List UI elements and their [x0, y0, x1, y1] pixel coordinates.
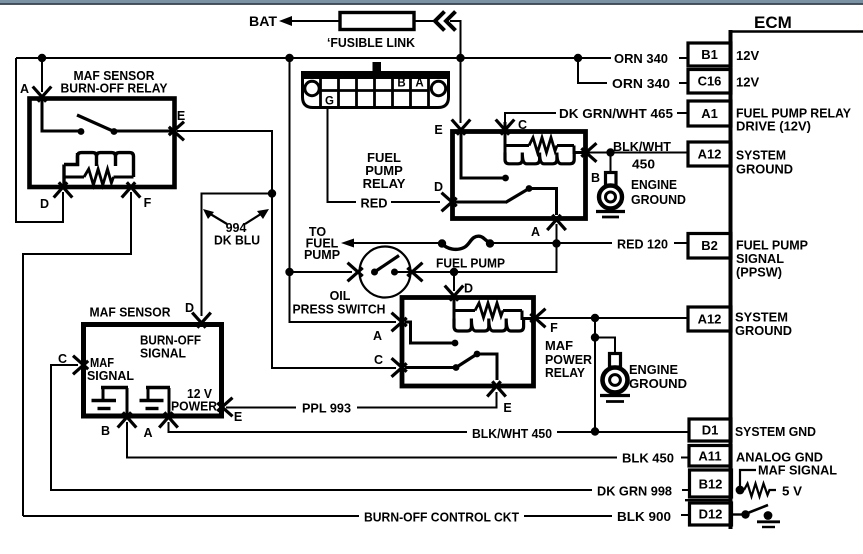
- svg-text:(PPSW): (PPSW): [736, 265, 782, 280]
- connector C100 grid verticals: [319, 78, 322, 107]
- svg-text:MAF: MAF: [545, 338, 573, 353]
- ECM terminal B1 box: [688, 43, 731, 66]
- coil K1 left lead: [62, 165, 65, 187]
- connector C100 row divider: [321, 89, 429, 92]
- S1 right contact: [391, 269, 398, 276]
- pin A arrow K3: [392, 313, 407, 327]
- svg-text:GROUND: GROUND: [735, 323, 792, 338]
- svg-text:B12: B12: [699, 477, 723, 492]
- svg-text:BURN-OFF CONTROL CKT: BURN-OFF CONTROL CKT: [364, 511, 519, 525]
- pin arrow BLK/WHT at K2 right: [581, 143, 596, 157]
- svg-text:MAF SIGNAL: MAF SIGNAL: [758, 463, 837, 478]
- inline fuse left terminal: [438, 239, 446, 247]
- pin D arrow K2: [442, 193, 457, 207]
- wire BLK/WHT 450 to ECM A12: [588, 152, 688, 154]
- svg-text:B1: B1: [701, 47, 718, 62]
- pin arrow into S1 left: [348, 263, 363, 277]
- engine ground G1 symbol: [606, 173, 617, 186]
- wire K1 pin F to left loop down: [23, 192, 131, 516]
- svg-text:B: B: [101, 424, 110, 438]
- svg-text:A: A: [373, 329, 382, 343]
- junction pump feed: [552, 239, 560, 247]
- svg-text:C16: C16: [698, 74, 722, 89]
- wire main 12V rail: [16, 57, 611, 59]
- wire fuse to junction: [490, 242, 557, 244]
- wire chevron to corner, down to fuel pump relay E: [450, 21, 461, 123]
- svg-text:A: A: [20, 82, 29, 96]
- pin E arrow K2: [452, 120, 466, 135]
- wire to engine ground G1: [610, 153, 612, 174]
- switch K2: E lead to contact: [461, 133, 503, 178]
- wire U1 pin A to BLK/WHT 450 (D1): [169, 422, 468, 432]
- junction at connector drop: [285, 54, 293, 62]
- junction engine ground G2 branch: [591, 333, 599, 341]
- wire rail drop to relay pin A: [41, 58, 43, 92]
- wire S1 to junction: [395, 271, 455, 273]
- svg-text:F: F: [144, 196, 152, 210]
- svg-text:C: C: [518, 118, 527, 132]
- svg-text:BAT: BAT: [249, 14, 278, 29]
- coil K2: C lead down: [504, 122, 507, 146]
- ECM top boundary: [729, 30, 863, 33]
- svg-text:DK GRN 998: DK GRN 998: [597, 484, 672, 499]
- wire fusible link to chevron: [414, 20, 437, 22]
- S1 left contact: [371, 269, 378, 276]
- inline fuse right terminal: [486, 239, 494, 247]
- ECM terminal C16 box: [688, 70, 731, 94]
- arrow to fuel pump: [341, 239, 354, 248]
- svg-text:GROUND: GROUND: [629, 376, 687, 391]
- fusible link F1: [340, 13, 414, 30]
- svg-text:BLK 900: BLK 900: [617, 509, 671, 524]
- svg-text:A: A: [531, 225, 540, 239]
- junction ground bus at D1 wire: [591, 427, 599, 435]
- wire PPL 993 from U1 E to K3 E: [226, 407, 296, 409]
- svg-text:PRESS SWITCH: PRESS SWITCH: [293, 303, 386, 317]
- svg-text:ORN 340: ORN 340: [612, 76, 670, 91]
- junction at left rail: [38, 54, 46, 62]
- switch K1 left contact: [78, 128, 85, 135]
- switch K3: A lead: [405, 322, 452, 343]
- pin D arrow U1: [192, 313, 206, 328]
- pin B arrow U1: [118, 412, 132, 427]
- wire K1 pin E to MAF power relay C: [177, 131, 396, 368]
- svg-text:BLK/WHT: BLK/WHT: [613, 139, 671, 154]
- wire switch K3 to pin E: [477, 354, 497, 380]
- switch K3: C lead: [405, 366, 456, 369]
- wire stub D12 switch: [733, 513, 742, 515]
- svg-text:ORN 340: ORN 340: [614, 51, 668, 66]
- junction at BAT feed: [456, 54, 464, 62]
- ECM terminal D1 box: [689, 419, 731, 441]
- svg-text:GROUND: GROUND: [631, 192, 686, 207]
- svg-text:D12: D12: [699, 507, 723, 522]
- pin F arrow K1: [122, 182, 136, 197]
- wire F to ECM A12 second: [537, 317, 688, 319]
- svg-text:E: E: [503, 401, 511, 415]
- oil press switch S1 circle: [360, 247, 411, 298]
- svg-text:POWER: POWER: [171, 400, 217, 414]
- svg-text:BLK/WHT 450: BLK/WHT 450: [472, 426, 552, 441]
- svg-text:SIGNAL: SIGNAL: [87, 369, 134, 383]
- svg-text:DK GRN/WHT 465: DK GRN/WHT 465: [559, 106, 673, 121]
- svg-text:A1: A1: [701, 106, 718, 121]
- pin C arrow U1: [73, 356, 88, 370]
- svg-text:ECM: ECM: [754, 13, 792, 32]
- coil K2 resistor and winding: [505, 144, 529, 147]
- coil K3 resistor and winding: [454, 309, 475, 312]
- junction 994 DK BLU branch: [268, 189, 276, 197]
- junction oil press switch branch: [285, 268, 293, 276]
- pin C arrow K2: [496, 120, 510, 135]
- connector C100 right screw hole: [431, 81, 445, 95]
- svg-text:A: A: [143, 426, 152, 440]
- pin E arrow K1: [169, 122, 184, 136]
- svg-text:RELAY: RELAY: [545, 365, 585, 380]
- switch K3 blade: [456, 354, 477, 368]
- pin A arrow U1: [159, 412, 173, 427]
- junction 5V node: [736, 486, 745, 495]
- svg-text:E: E: [177, 109, 185, 123]
- wire ground bus down: [594, 318, 596, 431]
- svg-text:PUMP: PUMP: [304, 248, 340, 262]
- junction at ORN 340 branch: [574, 54, 582, 62]
- wire C to DK GRN 998: [51, 365, 592, 490]
- junction system ground bus top: [591, 314, 599, 322]
- switch at D12 blade: [747, 505, 769, 514]
- wire stub ORN 340 C16: [679, 82, 688, 84]
- svg-text:D: D: [464, 282, 473, 296]
- wire K1 pin A to switch contact: [42, 99, 79, 131]
- wire K2 pin A down to oil press switch row: [454, 224, 557, 272]
- svg-text:D: D: [434, 180, 443, 194]
- svg-text:ENGINE: ENGINE: [629, 362, 678, 377]
- switch K2 blade: [506, 189, 530, 203]
- svg-text:C: C: [58, 352, 67, 366]
- ECM terminal D12 box: [690, 503, 732, 525]
- inline fuse curve: [442, 236, 490, 249]
- svg-text:SYSTEM: SYSTEM: [736, 148, 786, 163]
- connector C100 body: [303, 73, 449, 108]
- ground at D12: [757, 520, 780, 523]
- svg-text:MAF: MAF: [90, 356, 114, 370]
- svg-text:450: 450: [632, 157, 655, 172]
- wire branch to MAF sensor D: [202, 194, 273, 317]
- svg-text:BLK 450: BLK 450: [622, 451, 674, 466]
- resistor 5V pull-up: [744, 484, 776, 497]
- svg-text:RED: RED: [361, 197, 388, 211]
- wire to engine ground G2: [595, 338, 615, 355]
- ground symbol U1 pin B: [126, 388, 129, 415]
- svg-text:PPL 993: PPL 993: [302, 401, 351, 416]
- svg-text:12V: 12V: [736, 48, 759, 63]
- wire pin G to RED wire: [328, 108, 357, 202]
- svg-text:OIL: OIL: [330, 289, 351, 303]
- pin E arrow K3: [487, 381, 501, 396]
- pin C arrow K3: [392, 358, 407, 372]
- wire RED to fuel pump relay D: [391, 201, 440, 203]
- svg-text:5 V: 5 V: [782, 484, 802, 499]
- ECM terminal A12 box: [688, 142, 731, 166]
- wire DK GRN/WHT 465 from pin C to ECM A1: [505, 113, 556, 122]
- ECM left boundary: [729, 30, 733, 529]
- svg-text:E: E: [434, 123, 442, 137]
- wire BURN-OFF CONTROL CKT: [23, 515, 359, 517]
- arrow to BAT: [279, 16, 292, 26]
- svg-text:GROUND: GROUND: [736, 162, 793, 177]
- pin arrow into S1 right: [407, 263, 422, 277]
- svg-text:SIGNAL: SIGNAL: [140, 347, 186, 361]
- svg-text:FUEL PUMP: FUEL PUMP: [436, 257, 505, 271]
- coil K3: D lead down: [453, 296, 456, 311]
- ECM terminal A1 box: [688, 101, 731, 126]
- svg-text:B: B: [397, 78, 405, 90]
- svg-text:RED 120: RED 120: [617, 237, 668, 252]
- svg-text:D: D: [185, 301, 194, 315]
- svg-text:SYSTEM GND: SYSTEM GND: [735, 424, 816, 439]
- switch at D12 contact: [741, 510, 749, 518]
- svg-text:A12: A12: [698, 147, 722, 162]
- svg-text:B: B: [591, 171, 600, 185]
- resistor inside coil K1: [64, 176, 84, 179]
- switch at D12 fixed contact: [764, 511, 773, 520]
- wire left rail to relay pin D: [16, 58, 63, 222]
- svg-text:A11: A11: [698, 449, 721, 464]
- svg-text:‘FUSIBLE LINK: ‘FUSIBLE LINK: [327, 36, 415, 50]
- svg-text:MAF SENSOR: MAF SENSOR: [90, 305, 172, 320]
- wire stub ORN 340 B1: [679, 57, 688, 59]
- arrow to 994 wire left: [207, 212, 227, 224]
- wire junction down to K3 pin D: [453, 272, 455, 291]
- svg-text:RELAY: RELAY: [363, 176, 406, 191]
- junction MAF power relay D branch: [450, 268, 458, 276]
- svg-text:BURN-OFF RELAY: BURN-OFF RELAY: [61, 81, 168, 96]
- svg-text:G: G: [325, 96, 334, 108]
- wire BLK/WHT 450 to ECM D1: [557, 431, 690, 433]
- pin F arrow K3: [530, 309, 545, 323]
- coil K1 scalloped winding: [64, 153, 78, 165]
- wire rail drop to K3 pin A: [290, 272, 397, 322]
- pin D arrow K1: [54, 182, 67, 197]
- decorative top bar: [0, 0, 863, 3]
- svg-text:ENGINE: ENGINE: [631, 177, 677, 192]
- pin E arrow U1: [217, 398, 232, 412]
- ECM terminal B2 box: [688, 234, 731, 259]
- svg-text:DRIVE (12V): DRIVE (12V): [736, 119, 811, 134]
- ground symbol U1 pin A: [168, 388, 171, 415]
- svg-text:BURN-OFF: BURN-OFF: [140, 334, 201, 348]
- wire to oil press switch: [290, 271, 353, 273]
- wire rail drop at connector: [289, 58, 291, 268]
- S1 blade: [375, 256, 400, 273]
- ECM terminal B12 box: [690, 470, 732, 497]
- svg-text:D: D: [40, 197, 49, 211]
- svg-text:12V: 12V: [736, 75, 759, 90]
- connector C100 top bar: [302, 72, 450, 80]
- switch K1 blade: [77, 115, 114, 132]
- wire switch to pin A: [529, 189, 557, 216]
- svg-text:A12: A12: [698, 312, 722, 327]
- svg-text:F: F: [550, 321, 558, 335]
- connector C100 left screw hole: [305, 81, 319, 95]
- svg-text:DK BLU: DK BLU: [214, 234, 260, 248]
- wire MAF SIGNAL pointer: [740, 470, 756, 487]
- relay K3 MAF power relay box: [402, 298, 534, 387]
- svg-text:B2: B2: [701, 238, 718, 253]
- wire RED 120 to ECM B2: [557, 242, 613, 244]
- ECM terminal A11 box: [689, 446, 731, 467]
- pin D arrow K3: [445, 286, 459, 301]
- svg-text:A: A: [415, 78, 423, 90]
- arrow to 994 wire right: [245, 212, 264, 224]
- svg-text:E: E: [234, 410, 242, 424]
- switch K2: D lead: [455, 201, 506, 204]
- relay K2 fuel pump relay box: [453, 132, 586, 219]
- pin A arrow K2: [547, 215, 561, 230]
- engine ground G2 symbol: [610, 354, 621, 368]
- wire K1 switch to pin E: [114, 130, 176, 133]
- wire to inline fuse: [353, 242, 440, 244]
- switch K1 right contact: [111, 128, 118, 135]
- svg-text:C: C: [374, 353, 383, 367]
- wire BAT to fusible link: [291, 20, 339, 22]
- ECM terminal A12 box: [688, 307, 731, 331]
- junction engine ground branch: [606, 148, 614, 156]
- svg-text:D1: D1: [702, 423, 719, 438]
- pin A arrow K1: [33, 87, 47, 102]
- relay K1 MAF sensor burn-off relay box: [30, 99, 175, 188]
- ECM connector strip divider: [685, 499, 731, 501]
- wire break chevrons: [435, 12, 445, 31]
- MAF sensor U1 box: [84, 325, 222, 417]
- wire U1 pin B to BLK 450 (A11): [127, 422, 617, 458]
- connector C100 key tab: [373, 62, 382, 72]
- wire ORN 340 branch to C16: [578, 58, 607, 83]
